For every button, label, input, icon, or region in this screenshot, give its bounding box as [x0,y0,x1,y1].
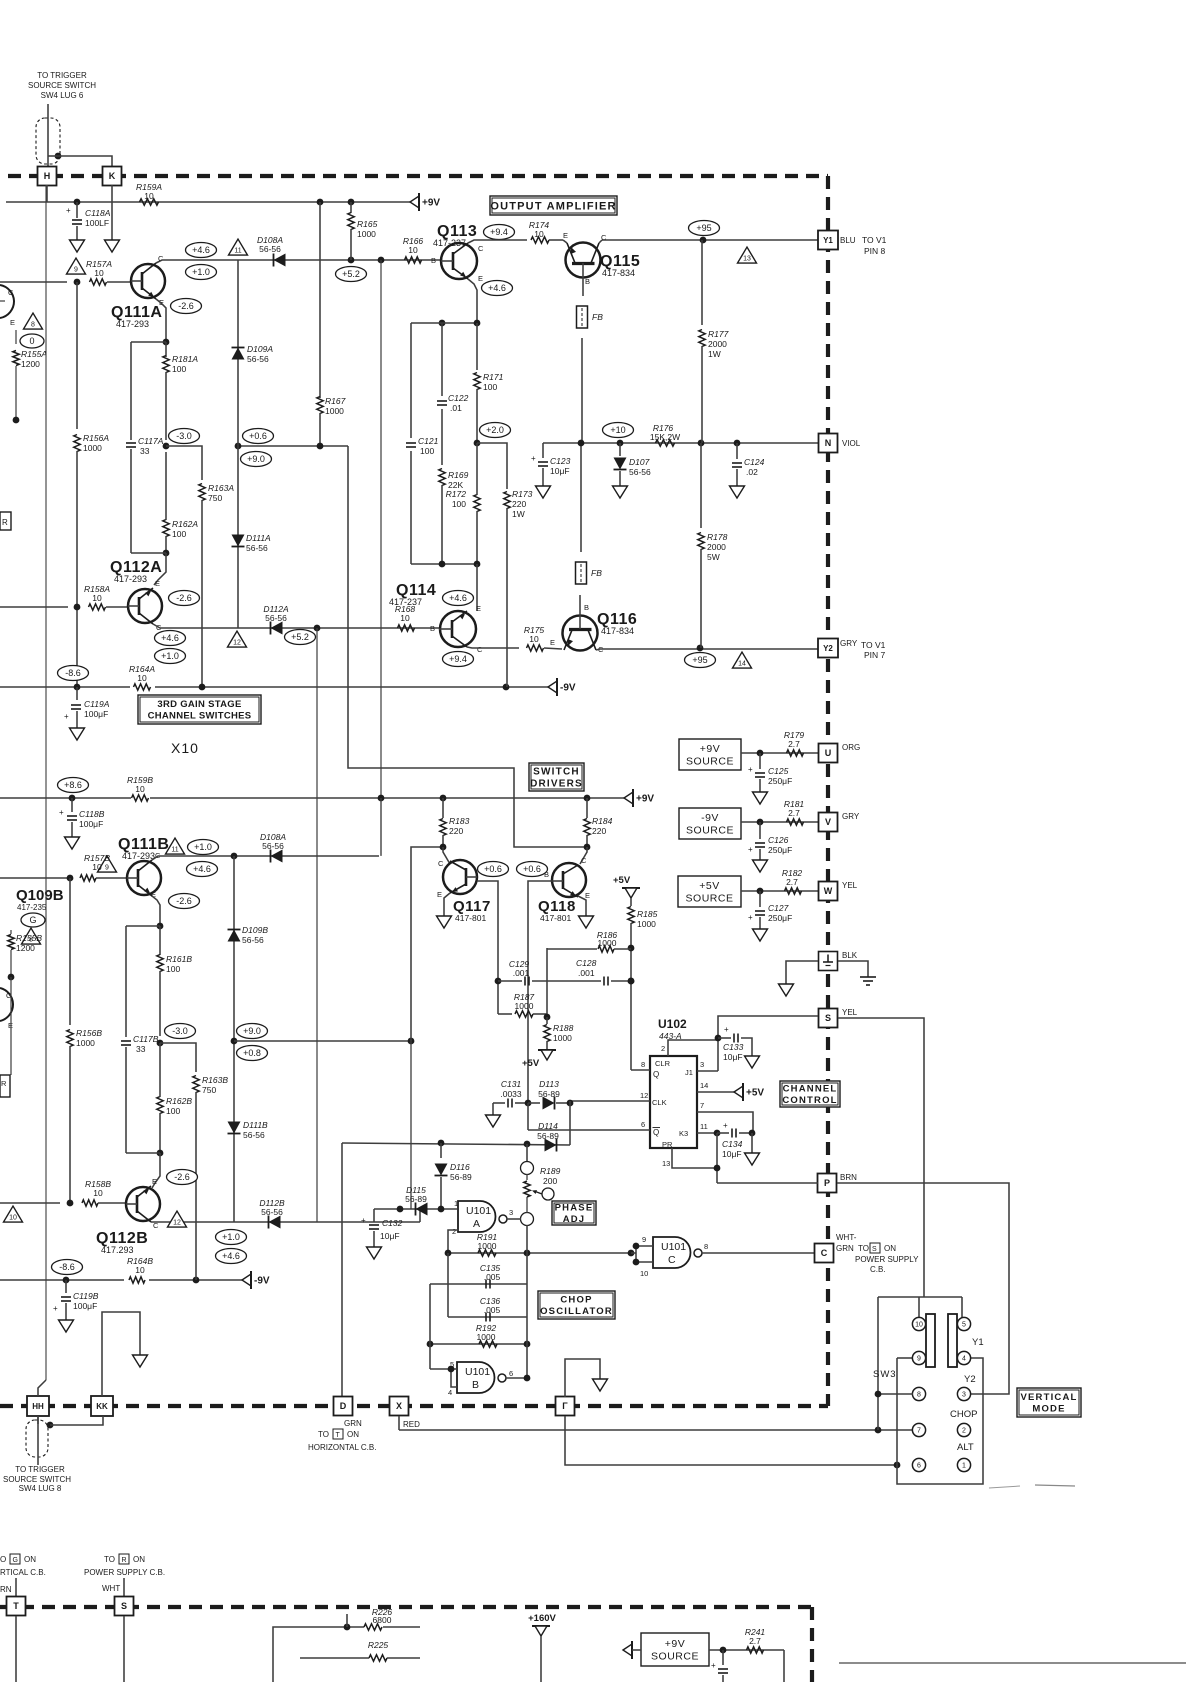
svg-text:Q: Q [653,1128,659,1137]
svg-text:+: + [53,1304,58,1313]
svg-text:56-56: 56-56 [247,354,269,364]
node dot-238-446 [235,443,242,450]
wire r226-wire [273,1627,420,1682]
svg-text:56-89: 56-89 [537,1131,559,1141]
svg-text:B: B [431,256,436,265]
wire u-row-wire [741,752,818,754]
svg-text:250μF: 250μF [768,913,792,923]
svg-text:R155A: R155A [21,349,47,359]
connector N [819,434,838,453]
svg-text:FB: FB [591,568,602,578]
svg-text:R163B: R163B [202,1075,228,1085]
wire k3-p-wire [716,1133,718,1183]
svg-text:POWER SUPPLY C.B.: POWER SUPPLY C.B. [84,1568,165,1577]
node n-5v2a-dot1 [348,257,355,264]
svg-text:1: 1 [454,1199,458,1208]
svg-text:D114: D114 [538,1121,558,1131]
node r241-dot [720,1647,727,1654]
svg-text:+: + [724,1025,729,1034]
svg-text:ALT: ALT [957,1442,974,1453]
svg-text:CHANNEL: CHANNEL [783,1084,838,1095]
svg-text:ORG: ORG [842,743,860,752]
switch SW3-pin5 [957,1317,970,1330]
capacitor C134 [714,1121,756,1159]
capacitor C230-partial [711,1650,728,1682]
switch SW3-bar2 [948,1314,957,1367]
svg-text:417-293: 417-293 [114,574,147,584]
svg-text:+4.6: +4.6 [192,245,210,255]
ground C119B-ground [59,1320,74,1332]
node y1041-dot [408,1038,415,1045]
svg-text:HH: HH [32,1402,44,1411]
svg-text:SOURCE: SOURCE [686,893,734,905]
power +9V-feed-b [624,789,654,807]
connector Y2 [818,639,838,658]
svg-text:V: V [825,817,831,827]
oval volt+2.0 [480,423,511,438]
resistor R168 [395,604,435,633]
svg-text:+: + [748,913,753,922]
switch SW3-outline [878,1297,983,1484]
resistor R158B [82,1179,111,1206]
callout warn-triangle-8a [24,313,43,329]
svg-text:417-834: 417-834 [602,268,635,278]
svg-text:417-237: 417-237 [389,597,422,607]
svg-text:10: 10 [93,1188,103,1198]
svg-text:+9.4: +9.4 [449,654,467,664]
wire phase-pot-top [526,1144,528,1162]
label Q112B-name [96,1230,148,1255]
switch SW3-pin4 [957,1351,970,1364]
svg-text:R181A: R181A [172,354,198,364]
oval volt+1.0b2 [216,1230,247,1245]
switch SW3-pin3 [957,1387,970,1400]
ground blk-left-ground [779,984,794,996]
wire vert-348 [348,446,587,847]
diode D109B [228,925,269,945]
svg-text:33: 33 [136,1044,146,1054]
svg-text:R171: R171 [483,372,504,382]
svg-text:10: 10 [529,634,539,644]
svg-text:1000: 1000 [515,1001,534,1011]
svg-text:PR: PR [662,1140,673,1149]
svg-text:9: 9 [74,266,78,273]
svg-text:SOURCE SWITCH: SOURCE SWITCH [3,1475,71,1484]
ground D107-ground [613,486,628,498]
svg-text:-3.0: -3.0 [176,431,192,441]
svg-text:+9V: +9V [422,198,440,209]
svg-text:+95: +95 [692,655,707,665]
svg-text:417-801: 417-801 [540,913,571,923]
label SW3-ALT [957,1442,974,1453]
wire base-line-581 [580,290,583,605]
svg-text:1000: 1000 [83,443,102,453]
wire U102-pin13-stub [662,1148,717,1168]
wire w-row-wire [741,890,818,892]
connector H [38,167,57,186]
svg-text:.005: .005 [484,1272,501,1282]
connector T-conn [7,1597,26,1616]
svg-text:10: 10 [408,245,418,255]
node r192-dot2 [524,1341,531,1348]
svg-text:Y2: Y2 [823,644,833,653]
svg-text:1000: 1000 [477,1332,496,1342]
svg-text:C128: C128 [576,958,597,968]
svg-text:2.7: 2.7 [788,808,800,818]
wire to-Q112B-emitter [152,1153,160,1188]
svg-text:100: 100 [172,364,186,374]
wire y1145-wire [342,1143,570,1145]
svg-text:1000: 1000 [637,919,656,929]
ground C126-ground [753,860,768,872]
svg-text:2000: 2000 [707,542,726,552]
callout warn-triangle-14 [733,652,752,668]
switch SW3-pin9 [912,1351,925,1364]
svg-text:D113: D113 [539,1079,559,1089]
node r164a-dot3 [503,684,510,691]
svg-text:SOURCE: SOURCE [651,1651,699,1663]
capacitor C117B [121,926,159,1153]
svg-text:15K,2W: 15K,2W [650,432,680,442]
svg-text:R165: R165 [357,219,378,229]
wire dashed board-border-top [8,174,828,178]
svg-text:C119A: C119A [84,699,110,709]
resistor R162A [163,452,199,553]
node c131-dot [525,1100,532,1107]
svg-text:ON: ON [884,1244,896,1253]
wire Q117-base-wire [477,881,498,1014]
diode D109A [232,344,274,364]
svg-text:10μF: 10μF [722,1149,742,1159]
svg-text:1000: 1000 [598,938,617,948]
capacitor C125 [748,753,792,792]
svg-text:+9V: +9V [636,794,654,805]
svg-text:+1.0: +1.0 [222,1232,240,1242]
svg-text:X10: X10 [171,740,199,756]
capacitor C118A [66,202,111,240]
svg-text:417-293: 417-293 [122,851,155,861]
svg-text:B: B [430,624,435,633]
resistor R182 [782,868,803,894]
svg-text:+0.8: +0.8 [243,1048,261,1058]
svg-text:C: C [8,288,14,297]
switch SW3-pin8 [912,1387,925,1400]
svg-text:D109B: D109B [242,925,268,935]
svg-text:56-56: 56-56 [265,613,287,623]
capacitor C129 [495,959,601,986]
gate U101C [640,1235,708,1278]
transistor Q118 [544,856,590,900]
wire Q111B-emitter-down [152,896,160,926]
svg-text:12: 12 [233,639,241,646]
svg-text:11: 11 [234,247,241,254]
svg-text:Y1: Y1 [972,1337,984,1348]
wire vert-411 [411,847,443,1209]
node r191-dot1 [445,1250,452,1257]
svg-text:+5V: +5V [522,1058,540,1069]
svg-text:R185: R185 [637,909,658,919]
svg-text:R: R [2,518,8,527]
svg-text:+: + [723,1121,728,1130]
svg-text:GRY: GRY [842,812,860,821]
node d115-dot1 [397,1206,404,1213]
oval volt-G [21,913,45,927]
node e-node-b [126,923,163,930]
oval volt+95b [685,653,716,668]
svg-text:.001: .001 [578,968,595,978]
label 3rd-gain-stage-box [138,695,261,724]
svg-text:1200: 1200 [16,943,35,953]
resistor R156A [74,282,110,687]
svg-text:2000: 2000 [708,339,727,349]
svg-text:+: + [531,454,536,463]
svg-text:+4.6: +4.6 [488,283,506,293]
diode D115 [405,1185,427,1216]
svg-text:+: + [748,845,753,854]
svg-text:2.7: 2.7 [749,1636,761,1646]
wire blk-left [786,961,818,984]
node p86-dot4 [584,795,591,802]
svg-text:B: B [585,277,590,286]
wire dashed board-border-bottom [0,1404,828,1408]
svg-text:D111A: D111A [246,533,271,543]
oval volt+9.4b [443,652,474,667]
svg-text:C: C [668,1254,676,1266]
svg-text:YEL: YEL [842,881,858,890]
svg-text:C122: C122 [448,393,469,403]
svg-text:+4.6: +4.6 [193,864,211,874]
svg-text:R189: R189 [540,1166,561,1176]
gate U101A [452,1199,513,1236]
node p10-dot2 [617,440,624,447]
svg-text:H: H [44,171,51,181]
node hh-cable-dot [47,1416,103,1428]
wire x570-seg [569,1101,571,1145]
wire r163b-branch [160,1043,196,1072]
wire v-row-wire [741,821,818,823]
capacitor C123 [531,443,571,486]
svg-text:GRN: GRN [836,1244,854,1253]
wire u101b-out [506,1375,530,1382]
svg-text:C125: C125 [768,766,789,776]
node r191-dot3 [628,1250,635,1257]
svg-text:R161B: R161B [166,954,192,964]
svg-text:417-293: 417-293 [116,319,149,329]
svg-text:10: 10 [94,268,104,278]
callout warn-triangle-12a [228,631,247,647]
node p10-dot4 [734,440,741,447]
svg-text:750: 750 [202,1085,216,1095]
svg-text:D111B: D111B [243,1120,268,1130]
wire rail-plus10 [543,442,818,444]
connector Gamma-conn [556,1397,575,1416]
wire R158B-to-base [98,1202,126,1204]
svg-text:-9V: -9V [701,812,719,824]
capacitor C136 [480,1296,501,1322]
diode D112B [259,1198,285,1229]
node dot-320-446 [317,443,324,450]
svg-text:1W: 1W [512,509,525,519]
wire p-right-wire [837,1183,1009,1394]
svg-text:S: S [825,1013,831,1023]
wire U102-pin6-wire [528,1120,650,1130]
wire Q112B-base-stub [0,1202,60,1204]
wire u101b-pins [430,1366,457,1387]
svg-text:10: 10 [9,1214,17,1221]
svg-text:SW3: SW3 [873,1369,897,1380]
node c119b-dot [63,1277,70,1284]
resistor R161B [157,926,193,1036]
resistor R178 [698,443,728,648]
svg-text:R162A: R162A [172,519,198,529]
node Q111A-base-dot [74,279,81,286]
resistor R186 [547,930,631,952]
svg-text:X: X [396,1401,402,1411]
svg-text:14: 14 [738,660,746,667]
wire r163b-to-rail [195,1203,197,1280]
ground C134-ground [745,1153,760,1165]
label to-t-on [308,1429,376,1452]
svg-text:OSCILLATOR: OSCILLATOR [540,1306,613,1317]
svg-text:+10: +10 [610,425,625,435]
svg-text:2.7: 2.7 [786,877,798,887]
resistor R172 [446,443,481,564]
node d115-dot2 [438,1206,445,1213]
svg-text:7: 7 [700,1101,704,1110]
wire hh-up [38,1380,46,1396]
svg-text:+5V: +5V [746,1088,764,1099]
wire t-conn-down [15,1616,17,1682]
wire R157B-to-base [96,877,127,879]
oval volt+9.0b [237,1024,268,1039]
svg-text:220: 220 [512,499,526,509]
svg-text:.005: .005 [484,1305,501,1315]
svg-text:2: 2 [962,1428,966,1435]
svg-text:-2.6: -2.6 [176,896,192,906]
svg-text:417-237: 417-237 [433,238,466,248]
wire bottom-right-line [839,1662,1186,1664]
resistor R158A [84,584,110,610]
connector C-conn [815,1244,834,1263]
svg-text:+0.6: +0.6 [523,864,541,874]
wire u101c-out [702,1252,815,1254]
svg-text:10: 10 [640,1269,648,1278]
resistor R162B [157,1043,193,1153]
svg-text:R184: R184 [592,816,613,826]
svg-text:10μF: 10μF [723,1052,743,1062]
transistor Q114 [439,604,483,654]
node c125-dot [757,750,764,757]
oval volt+0.8b [237,1046,268,1061]
node e-node-a [131,339,169,346]
wire x381-to-rail [380,798,382,856]
connector HH [27,1396,49,1416]
resistor R173 [504,489,533,687]
svg-text:DRIVERS: DRIVERS [530,779,583,790]
svg-text:TO: TO [318,1430,329,1439]
svg-text:D109A: D109A [247,344,273,354]
svg-text:Y1: Y1 [823,236,833,245]
svg-text:11: 11 [700,1122,708,1131]
connector KK [91,1396,113,1416]
node y564-dot1 [439,561,446,568]
switch SW3-pin7 [912,1423,925,1436]
label -9V-source-box [679,808,741,839]
oval volt+9.0a [241,452,272,467]
ground C118A-ground [70,240,85,252]
svg-text:C117A: C117A [138,436,164,446]
svg-text:GRY: GRY [840,639,858,648]
label SW3-name [873,1369,897,1380]
svg-text:E: E [476,604,481,613]
svg-text:E: E [478,274,483,283]
node alt-dot [894,1462,901,1469]
resistor R167 [317,202,346,446]
node r192-dot1 [427,1341,434,1348]
svg-text:+9.0: +9.0 [243,1026,261,1036]
capacitor C128 [576,958,634,986]
wire Q112A-base-stub [0,606,68,608]
svg-text:C126: C126 [768,835,789,845]
svg-text:E: E [585,891,590,900]
capacitor C132 [361,1209,403,1247]
svg-text:100: 100 [420,446,434,456]
resistor R155A [13,330,48,420]
connector P [818,1174,837,1193]
wire r163a-branch [166,446,202,480]
resistor R225 [300,1640,420,1661]
gate U101B [448,1360,513,1397]
svg-text:8: 8 [917,1392,921,1399]
svg-text:POWER SUPPLY: POWER SUPPLY [855,1255,919,1264]
wire x430-seg [429,1284,431,1369]
svg-text:CLK: CLK [652,1098,667,1107]
resistor R165 [348,202,378,260]
node x196-dot [193,1277,200,1284]
resistor R226 [364,1607,392,1630]
wire s2-conn-down [123,1616,125,1682]
node p10-dot3 [698,440,705,447]
resistor R169 [439,469,469,565]
ground K-ground [105,240,120,252]
wire U102-pin12-wire [570,1091,650,1101]
label +9V-source-box [679,739,741,770]
resistor R184 [580,798,613,864]
diode D111A [232,533,272,553]
wire long-vertical-317 [316,628,318,1222]
svg-text:-3.0: -3.0 [172,1026,188,1036]
svg-text:220: 220 [449,826,463,836]
svg-text:2: 2 [661,1044,665,1053]
svg-text:0: 0 [29,336,34,346]
svg-text:+2.0: +2.0 [486,425,504,435]
ground C133-ground [745,1056,760,1068]
diode D108A [257,235,286,267]
oval volt+4.6b2 [216,1249,247,1264]
svg-text:417-235: 417-235 [17,903,47,912]
svg-text:+: + [66,206,71,215]
svg-text:R225: R225 [368,1640,389,1650]
resistor R156B [67,878,103,1203]
wire Q118-base-wire [528,881,551,1103]
wire trigger-h-link [48,155,58,157]
oval volt+1.0b [188,840,219,855]
label to-g-on [0,1554,46,1577]
svg-text:T: T [336,1432,341,1439]
wire rail-plus8.6 [0,797,624,799]
label Q115-name [600,253,640,278]
svg-text:T: T [13,1601,19,1611]
